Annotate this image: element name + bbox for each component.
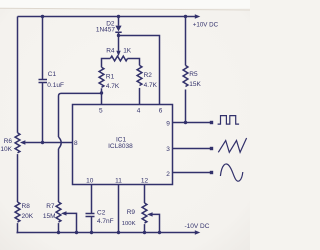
svg-text:8: 8 xyxy=(74,140,78,147)
svg-text:R2: R2 xyxy=(144,72,153,79)
svg-text:9: 9 xyxy=(166,120,170,127)
junction R7 wiper/bottom xyxy=(75,231,78,234)
wire: pin 3 output xyxy=(173,148,211,150)
resistor R5 xyxy=(183,65,188,86)
arrowhead R7 wiper (left) xyxy=(61,211,67,215)
wire: left rail middle xyxy=(17,154,19,202)
resistor R6 (pot body) xyxy=(15,133,20,153)
capacitor C2 xyxy=(86,214,95,217)
svg-text:C2: C2 xyxy=(97,209,106,216)
page edge band top xyxy=(0,0,250,9)
junction R5/pin9 xyxy=(184,121,187,124)
IC U1 box xyxy=(73,105,173,185)
svg-text:100K: 100K xyxy=(122,221,136,227)
svg-text:1K: 1K xyxy=(123,48,132,55)
wire: R6 wiper to pin 8 xyxy=(25,142,72,144)
svg-text:R4: R4 xyxy=(106,48,115,55)
junction R1/pin5 xyxy=(100,91,103,94)
square wave symbol xyxy=(218,116,239,125)
wire: bottom rail xyxy=(17,232,196,234)
diode D2 xyxy=(115,17,121,36)
wire: D2 junction to pot R4 wiper xyxy=(118,36,120,51)
svg-text:R6: R6 xyxy=(4,138,13,145)
svg-text:R1: R1 xyxy=(106,74,115,81)
junction R7/bottom xyxy=(57,231,60,234)
resistor R9 (pot body) xyxy=(142,203,147,223)
svg-text:4.7nF: 4.7nF xyxy=(97,218,114,225)
wire: pin 12 to R9 xyxy=(144,185,146,204)
svg-text:ICL8038: ICL8038 xyxy=(108,143,133,150)
wire: top rail xyxy=(18,16,196,18)
junction C2/bottom xyxy=(90,231,93,234)
wire: R8 to bottom rail xyxy=(17,223,18,232)
wire: down to R7 xyxy=(58,149,60,202)
svg-text:2: 2 xyxy=(166,171,170,178)
wire: left rail top xyxy=(17,17,19,133)
wire: C1 branch xyxy=(42,17,44,80)
svg-text:12: 12 xyxy=(141,177,149,184)
svg-text:-10V DC: -10V DC xyxy=(185,223,210,230)
svg-text:10K: 10K xyxy=(0,146,12,153)
junction pin11/bottom xyxy=(117,231,120,234)
wire: R1 to pin5 node xyxy=(101,88,103,93)
junction D2/top xyxy=(117,15,120,18)
wire: pin5 node left and down to hop xyxy=(59,93,102,137)
svg-text:C1: C1 xyxy=(48,71,57,78)
wire: +10V to R5 xyxy=(185,17,187,66)
terminal pin2 xyxy=(210,171,213,174)
arrowhead R9 wiper (left) xyxy=(147,212,153,216)
wire: R4 right lead to R2 xyxy=(128,59,140,66)
junction D2/pin6 xyxy=(117,34,120,37)
arrowhead +10V xyxy=(195,14,201,18)
junction C1/pin8 wire xyxy=(41,141,44,144)
wire: C1 to pin8 net xyxy=(42,83,44,143)
svg-text:+10V DC: +10V DC xyxy=(193,22,219,29)
svg-text:15M: 15M xyxy=(43,213,56,220)
resistor R7 (pot body) xyxy=(56,202,61,222)
wire hop over pin8 wire xyxy=(59,137,62,149)
svg-text:R9: R9 xyxy=(127,209,136,216)
svg-text:20K: 20K xyxy=(22,213,34,220)
capacitor C1 xyxy=(39,80,48,83)
svg-text:R5: R5 xyxy=(189,71,198,78)
wire: pin 6 branch xyxy=(119,36,160,105)
wire: pin 4 stub xyxy=(139,88,141,105)
diode D2 triangle xyxy=(115,26,121,32)
sine wave symbol xyxy=(220,164,242,181)
svg-text:4.7K: 4.7K xyxy=(106,83,120,90)
wire: R7 wiper tail xyxy=(67,213,77,232)
wire: R9 to bottom rail xyxy=(144,224,146,232)
wire: R4 left lead to R1 xyxy=(102,59,111,68)
svg-text:4: 4 xyxy=(137,108,141,115)
terminal pin3 xyxy=(210,147,213,150)
terminal pin9 xyxy=(210,121,213,124)
wire: pin 10 stub xyxy=(91,185,93,214)
wire: R9 wiper tail xyxy=(153,214,160,232)
wire: pin 2 output xyxy=(173,172,211,174)
svg-text:10: 10 xyxy=(86,177,94,184)
junction R9 wiper/bottom xyxy=(158,231,161,234)
arrowhead -10V xyxy=(195,230,201,234)
junction C1/top xyxy=(41,15,44,18)
svg-text:R8: R8 xyxy=(22,203,31,210)
resistor R1 xyxy=(99,67,104,87)
wire: R7 to bottom rail xyxy=(58,223,60,232)
arrowhead R6 wiper (left) xyxy=(20,140,26,144)
wire: C2 to bottom rail xyxy=(91,217,93,233)
junction R9/bottom xyxy=(143,231,146,234)
svg-text:1N457: 1N457 xyxy=(96,27,116,34)
svg-text:4.7K: 4.7K xyxy=(144,82,158,89)
resistor R4 (pot body) xyxy=(110,56,127,61)
resistor R2 xyxy=(137,65,142,85)
resistor R8 xyxy=(15,202,20,222)
arrowhead R4 wiper (down) xyxy=(116,51,120,57)
svg-text:5: 5 xyxy=(99,108,103,115)
wire: pin 5 stub xyxy=(101,93,103,105)
wire: pin 11 stub xyxy=(118,185,120,233)
svg-text:3: 3 xyxy=(166,146,170,153)
svg-text:R7: R7 xyxy=(46,203,55,210)
svg-text:0.1uF: 0.1uF xyxy=(47,82,64,89)
wire: R5 to pin 9 xyxy=(185,90,187,123)
svg-text:6: 6 xyxy=(159,108,163,115)
svg-text:11: 11 xyxy=(115,177,122,184)
wire: pin 9 output xyxy=(173,122,211,124)
svg-text:15K: 15K xyxy=(189,81,201,88)
triangle wave symbol xyxy=(218,138,246,152)
junction +10V corner xyxy=(184,15,187,18)
